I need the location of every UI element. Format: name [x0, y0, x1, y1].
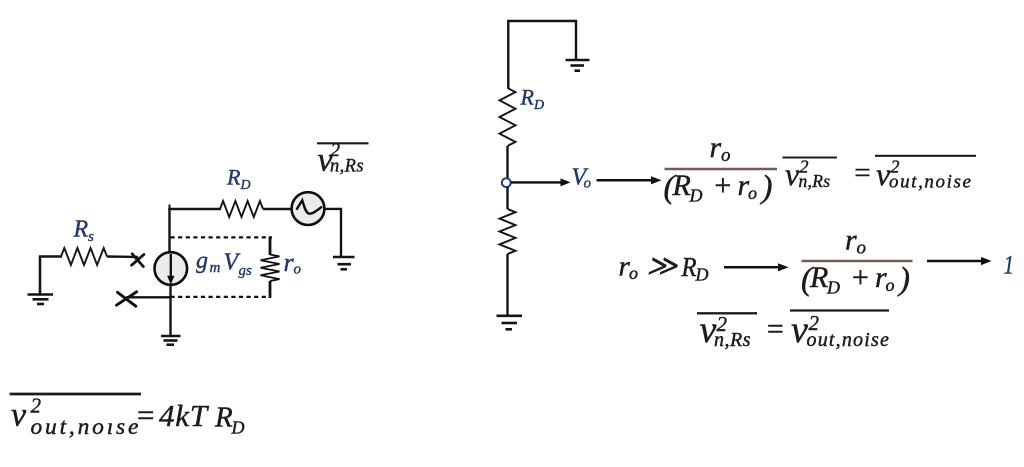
row3: vn,Rs squared: [697, 309, 757, 351]
svg-text:R: R: [809, 261, 828, 294]
svg-text:D: D: [533, 98, 544, 113]
arrow row2 right: [927, 257, 992, 265]
svg-text:gs: gs: [239, 263, 253, 279]
node Vo (open circle): [502, 178, 511, 187]
resistor (lower, right circuit): [500, 209, 516, 254]
svg-text:o: o: [886, 275, 895, 295]
ground (under current source): [161, 336, 181, 345]
label vn,Rs squared (overbar): [317, 140, 369, 178]
svg-text:+: +: [850, 261, 870, 294]
fraction ro/(RD+ro) row2: [801, 224, 913, 298]
row2: ro >> RD: [619, 250, 709, 285]
svg-text:n,Rs: n,Rs: [799, 171, 831, 191]
svg-text:=: =: [765, 313, 785, 346]
svg-text:g: g: [196, 248, 208, 274]
resistor r_o (vertical): [261, 236, 280, 298]
wire lower (source node): [126, 296, 171, 298]
svg-text:D: D: [826, 278, 840, 298]
wire node to lower resistor: [506, 187, 508, 209]
svg-text:v: v: [11, 397, 27, 434]
dashed box top: [171, 236, 273, 238]
current source arrow: [170, 254, 172, 277]
svg-text:=: =: [135, 398, 156, 433]
svg-text:): ): [760, 170, 773, 206]
fraction ro/(RD+ro) row1: [664, 131, 778, 206]
svg-text:1: 1: [1004, 251, 1015, 280]
wire source bottom to ground: [169, 285, 171, 337]
wire RD to node: [506, 146, 508, 179]
svg-text:n,Rs: n,Rs: [330, 157, 364, 177]
dashed box bottom: [171, 296, 272, 298]
svg-text:D: D: [231, 418, 245, 438]
sine wave: [297, 200, 321, 214]
svg-text:o: o: [294, 262, 302, 278]
wire ground to Rs: [39, 255, 62, 257]
svg-text:o: o: [629, 263, 638, 283]
svg-text:4kT: 4kT: [159, 398, 210, 433]
arrow node to Vo: [511, 178, 571, 186]
svg-text:out,noise: out,noise: [889, 172, 973, 193]
wire RD to noise source: [263, 208, 292, 210]
wire lower resistor to ground: [506, 254, 508, 315]
svg-text:m: m: [210, 260, 221, 276]
svg-text:D: D: [240, 178, 251, 193]
ground (under noise source): [333, 257, 355, 269]
svg-text:r: r: [845, 224, 857, 257]
current source U1 circle: [155, 252, 188, 285]
svg-text:R: R: [73, 216, 89, 242]
row3: v out,noise squared: [790, 309, 890, 351]
wire top node vertical: [168, 208, 170, 253]
bottom formula: v out,noise squared = 4kTRD: [10, 394, 245, 441]
ground (top right): [566, 60, 590, 71]
svg-text:o: o: [857, 238, 867, 259]
svg-text:n,Rs: n,Rs: [714, 329, 751, 351]
svg-text:v: v: [791, 309, 808, 351]
arrow row2 left: [724, 263, 789, 271]
svg-text:R: R: [226, 165, 241, 190]
svg-text:R: R: [672, 169, 691, 202]
svg-text:): ): [897, 262, 910, 298]
svg-text:R: R: [214, 402, 233, 434]
svg-text:D: D: [695, 265, 709, 285]
svg-text:=: =: [853, 157, 873, 189]
label r_o: [284, 248, 302, 278]
svg-text:R: R: [681, 252, 697, 282]
resistor R_D (left circuit): [220, 201, 263, 217]
svg-text:o: o: [584, 176, 592, 192]
label R_D (right): [520, 85, 545, 114]
svg-text:s: s: [88, 229, 94, 245]
svg-text:R: R: [520, 85, 535, 110]
wire top rail: [168, 208, 221, 210]
vn,Rs squared (row1): [783, 156, 838, 192]
label V_o: [572, 165, 592, 192]
label R_D (left): [226, 165, 251, 194]
svg-text:r: r: [710, 131, 722, 164]
wire top rail (right circuit): [508, 21, 576, 88]
resistor R_D (right circuit): [500, 88, 516, 146]
svg-text:≫: ≫: [646, 250, 678, 283]
wire Rs to X: [107, 255, 138, 258]
ground (left, under Rs): [28, 257, 54, 305]
svg-text:o: o: [748, 183, 757, 203]
arrow Vo to fraction: [597, 176, 662, 184]
ground (bottom right): [497, 316, 523, 330]
resistor R_s: [61, 248, 107, 265]
label gmVgs: [196, 248, 252, 279]
label R_s: [73, 216, 95, 244]
svg-text:D: D: [689, 186, 703, 206]
v out,noise squared (row1): [875, 156, 976, 193]
svg-text:+: +: [713, 169, 733, 202]
wire noise source to ground: [324, 209, 341, 256]
X mark (gate disconnect): [132, 254, 144, 267]
svg-text:o: o: [721, 145, 731, 166]
svg-text:out,noise: out,noise: [807, 329, 891, 351]
svg-text:out,noıse: out,noıse: [31, 414, 142, 440]
noise source Vn,Rs circle: [292, 192, 325, 225]
X mark (source disconnect): [117, 292, 137, 306]
